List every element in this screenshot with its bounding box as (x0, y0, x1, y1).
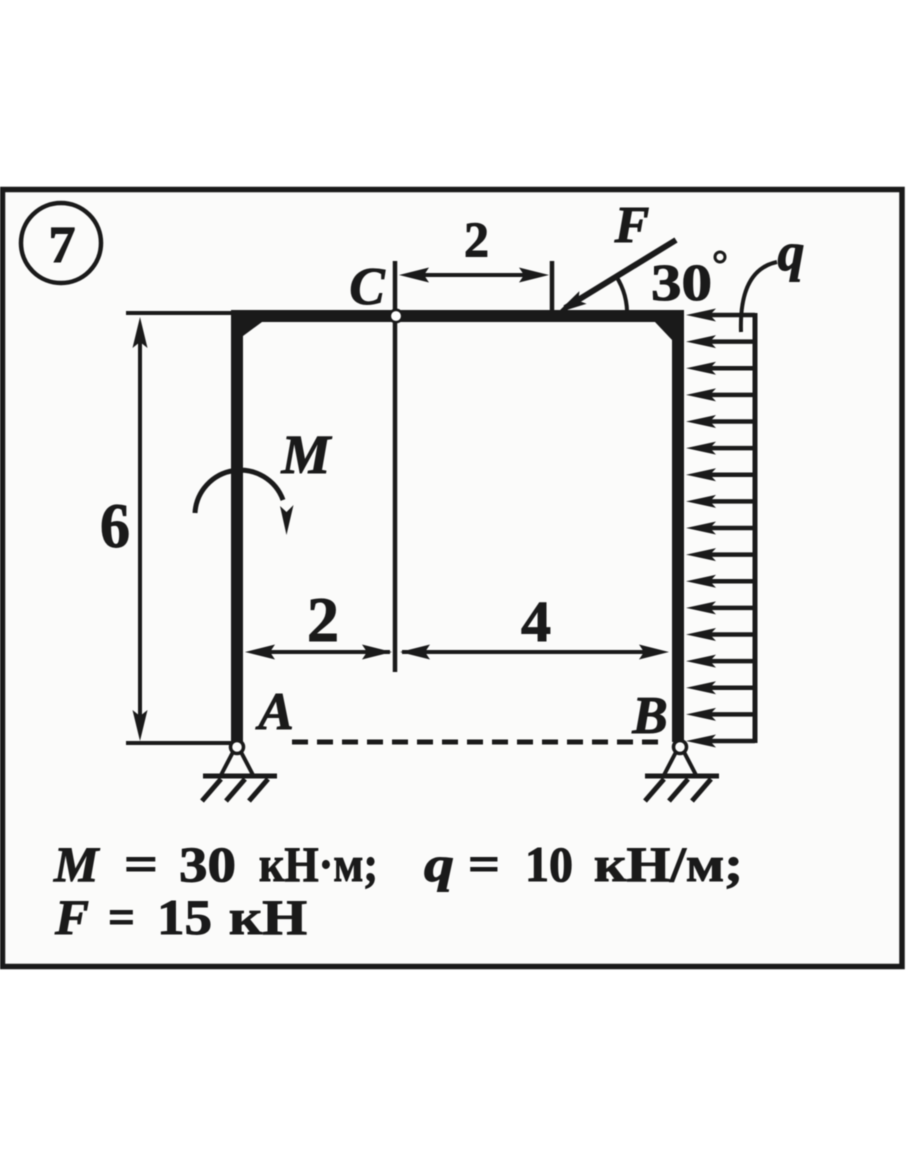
moment M arc (195, 470, 283, 513)
task number circle 7 (21, 203, 101, 283)
support A triangle (221, 752, 233, 775)
svg-text:=: = (108, 889, 135, 945)
center vertical thin line (393, 261, 398, 672)
force F arrowhead (557, 291, 587, 313)
support B pin (674, 741, 687, 754)
svg-text:=: = (468, 836, 500, 892)
distributed load arrows (686, 309, 755, 748)
svg-text:M: M (53, 836, 100, 892)
moment M arrowhead (280, 505, 294, 535)
svg-text:15: 15 (157, 889, 212, 945)
left column (231, 310, 243, 742)
svg-text:B: B (631, 687, 667, 745)
30 degree arc (616, 276, 627, 317)
svg-text:30: 30 (651, 255, 712, 312)
beam top (C-span) (231, 310, 684, 322)
support B ground (645, 774, 719, 779)
svg-text:A: A (255, 683, 293, 741)
wire: bottom-left extension line (126, 741, 233, 745)
hinge circle at C (390, 310, 402, 322)
support A hatching (202, 779, 221, 801)
top dimension line 2 (410, 273, 540, 277)
frame border (3, 190, 903, 967)
svg-text:F: F (614, 197, 650, 254)
wire: top-left extension line (126, 311, 233, 315)
support A ground (203, 774, 277, 779)
support B hatching (645, 779, 664, 801)
svg-text:кН: кН (229, 889, 307, 945)
force F line (565, 240, 676, 308)
svg-text:=: = (124, 836, 158, 892)
svg-text:M: M (281, 424, 333, 485)
given values line 1 (53, 836, 743, 892)
svg-text:C: C (349, 258, 385, 316)
svg-text:10: 10 (525, 836, 573, 892)
svg-text:30: 30 (179, 836, 236, 892)
left corner fillet (243, 322, 262, 336)
bottom dimension line 2-4 (255, 650, 390, 654)
right corner fillet (655, 322, 672, 340)
right column (672, 310, 684, 742)
svg-text:7: 7 (49, 217, 76, 274)
support A pin (231, 741, 244, 754)
dashed line A-B (292, 740, 664, 745)
distributed load q right boundary (753, 313, 758, 743)
svg-text:6: 6 (100, 490, 130, 561)
top dim tick right (550, 261, 555, 318)
given values line 2 (54, 889, 307, 945)
svg-text:2: 2 (464, 211, 489, 267)
degree symbol (715, 252, 725, 262)
svg-text:q: q (424, 836, 454, 892)
svg-text:q: q (778, 222, 805, 282)
support B triangle (664, 752, 676, 775)
dimension 6 vertical line (138, 330, 142, 728)
svg-text:F: F (54, 889, 89, 945)
svg-text:2: 2 (307, 585, 339, 655)
q leader curve (741, 262, 777, 332)
svg-text:кН·м;: кН·м; (259, 836, 378, 892)
svg-text:4: 4 (521, 589, 551, 654)
svg-text:кН/м;: кН/м; (594, 836, 743, 892)
